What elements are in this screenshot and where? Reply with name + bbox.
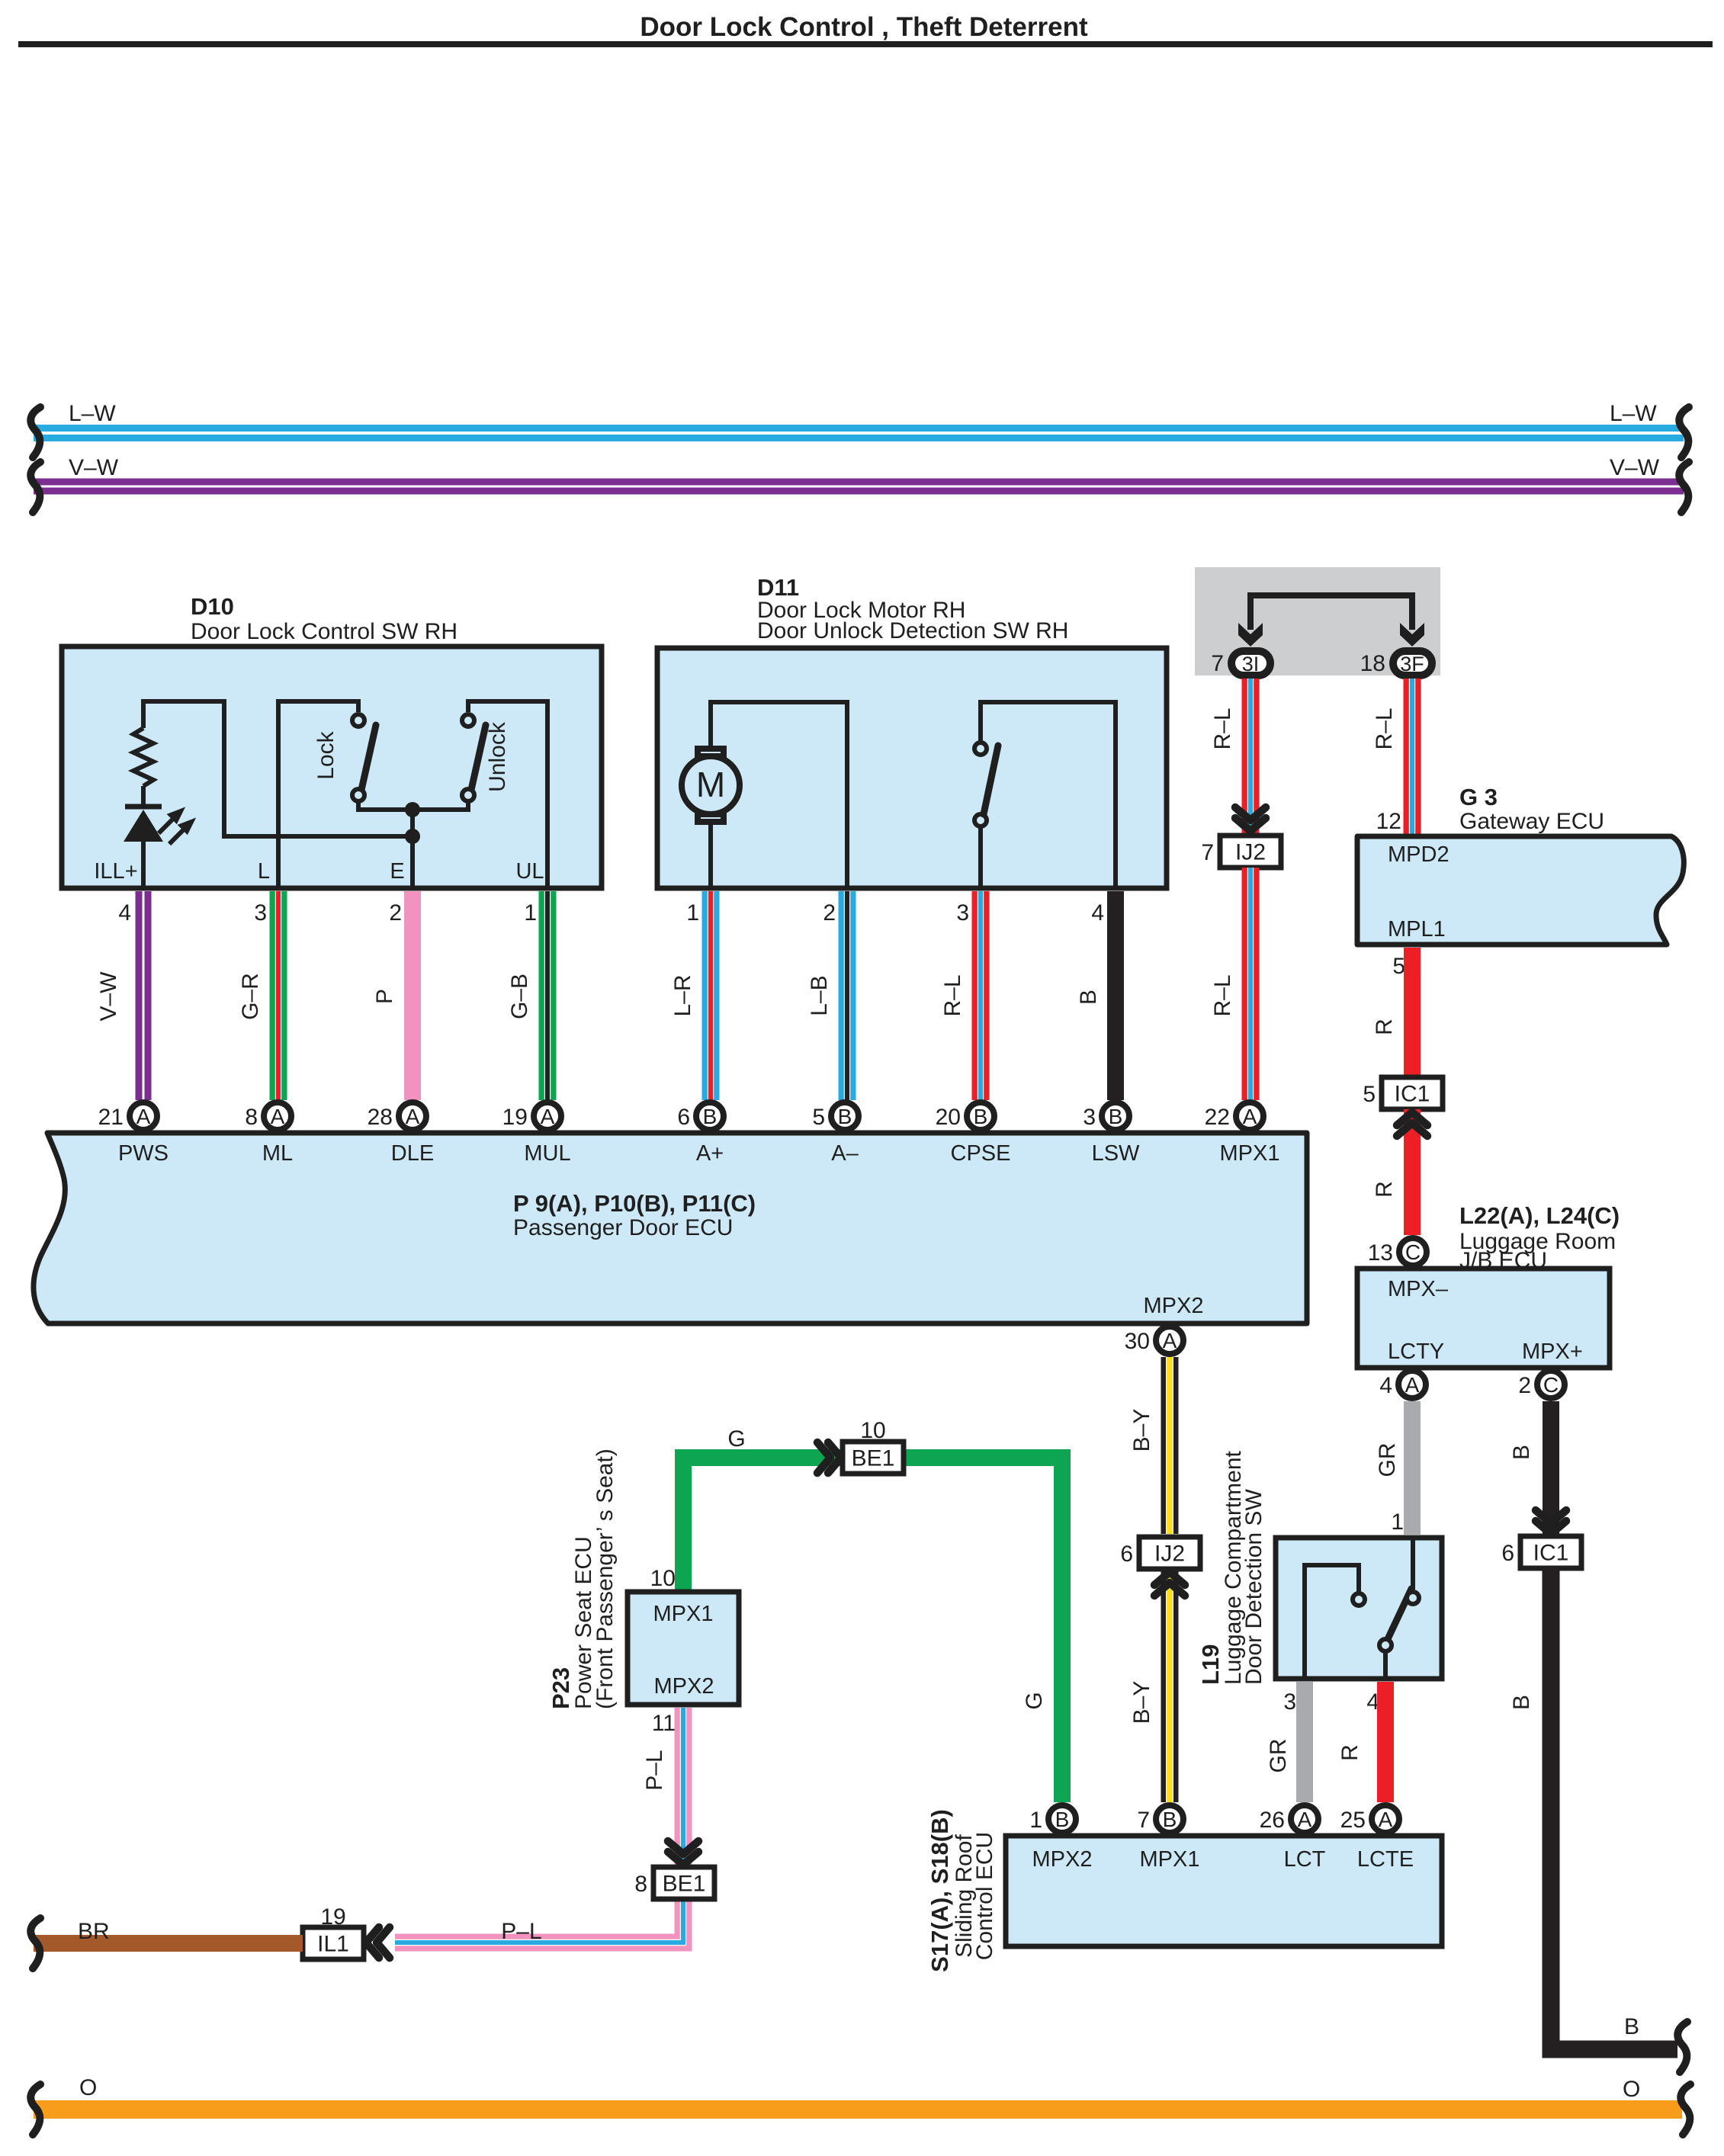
svg-text:21: 21 <box>98 1105 124 1130</box>
svg-text:UL: UL <box>515 859 544 884</box>
svg-text:MPD2: MPD2 <box>1388 842 1450 867</box>
svg-text:E: E <box>390 859 404 884</box>
arrow into 3I <box>1238 623 1263 646</box>
svg-text:25: 25 <box>1340 1808 1366 1833</box>
arrow into BE1 lower <box>668 1841 698 1865</box>
svg-text:3: 3 <box>956 900 969 926</box>
wire E pin <box>410 810 415 888</box>
svg-text:1: 1 <box>686 900 699 926</box>
svg-text:B: B <box>838 1105 852 1128</box>
svg-text:G 3: G 3 <box>1459 784 1498 810</box>
svg-text:19: 19 <box>502 1105 528 1130</box>
svg-text:B: B <box>1509 1445 1534 1460</box>
svg-text:8: 8 <box>245 1105 258 1130</box>
svg-text:IJ2: IJ2 <box>1154 1542 1185 1567</box>
svg-text:3: 3 <box>254 900 267 926</box>
svg-text:LSW: LSW <box>1092 1141 1140 1166</box>
svg-text:P–L: P–L <box>501 1919 541 1944</box>
svg-text:A: A <box>1379 1808 1393 1831</box>
svg-text:MUL: MUL <box>524 1141 570 1166</box>
svg-text:BE1: BE1 <box>852 1446 895 1471</box>
connector 26 A S17 <box>1291 1805 1318 1833</box>
svg-text:G–R: G–R <box>238 973 263 1020</box>
svg-text:B: B <box>1076 990 1101 1005</box>
svg-text:A+: A+ <box>696 1141 724 1166</box>
lock switch top contact <box>352 714 364 727</box>
wire R L19 to LCTE <box>1377 1682 1394 1802</box>
wire G-R pin3 <box>270 891 287 1100</box>
svg-text:28: 28 <box>368 1105 393 1130</box>
svg-text:R–L: R–L <box>940 974 965 1016</box>
svg-text:4: 4 <box>1379 1373 1392 1398</box>
svg-text:B–Y: B–Y <box>1129 1681 1154 1724</box>
svg-text:MPX–: MPX– <box>1388 1277 1449 1301</box>
lock switch blade <box>361 725 376 790</box>
junction dot E upper <box>405 802 420 817</box>
svg-text:A: A <box>136 1105 151 1128</box>
wire L19 pin1 lead <box>1411 1540 1415 1590</box>
svg-text:BR: BR <box>78 1919 110 1944</box>
svg-text:A: A <box>1163 1329 1177 1352</box>
svg-text:MPX1: MPX1 <box>1220 1141 1280 1166</box>
connector 25 A S17 <box>1372 1805 1399 1833</box>
connector 7 B S17 <box>1156 1805 1183 1833</box>
svg-text:7: 7 <box>1211 651 1224 676</box>
svg-text:MPX+: MPX+ <box>1522 1339 1583 1364</box>
svg-text:2: 2 <box>823 900 836 926</box>
junction IL1 <box>303 1927 364 1959</box>
svg-text:B: B <box>1163 1808 1177 1831</box>
svg-text:22: 22 <box>1205 1105 1230 1130</box>
L19 bottom contact <box>1379 1639 1392 1651</box>
cut symbol O right <box>1681 2084 1690 2135</box>
junction BE1 lower <box>653 1867 714 1899</box>
wire B pin4 <box>1107 891 1124 1100</box>
svg-text:L–B: L–B <box>807 975 832 1015</box>
svg-text:5: 5 <box>1392 954 1405 979</box>
connector 6 B ECU <box>696 1102 724 1130</box>
cut symbol O left <box>30 2084 40 2135</box>
junction dot E lower <box>405 829 420 844</box>
svg-text:26: 26 <box>1260 1808 1285 1833</box>
svg-text:3: 3 <box>1283 1689 1296 1715</box>
svg-text:1: 1 <box>1391 1510 1404 1535</box>
component L22 Luggage Room J/B ECU box <box>1357 1269 1610 1368</box>
svg-text:Door Detection SW: Door Detection SW <box>1241 1489 1267 1685</box>
svg-text:R–L: R–L <box>1210 707 1235 749</box>
unlock det sw bottom contact <box>974 814 987 826</box>
svg-text:18: 18 <box>1360 651 1385 676</box>
svg-text:Door Unlock Detection SW RH: Door Unlock Detection SW RH <box>757 618 1068 643</box>
svg-text:B: B <box>1509 1695 1534 1710</box>
svg-text:L–R: L–R <box>670 974 695 1016</box>
svg-text:B: B <box>703 1105 718 1128</box>
svg-text:5: 5 <box>1363 1082 1376 1107</box>
motor M D11 <box>682 749 740 822</box>
svg-text:A: A <box>1298 1808 1312 1831</box>
wire B luggage to IC1 <box>1543 1401 1559 1537</box>
component P23 Power Seat ECU box <box>628 1592 739 1705</box>
svg-text:Lock: Lock <box>313 730 339 779</box>
connector 5 B ECU <box>831 1102 859 1130</box>
svg-text:O: O <box>1623 2077 1640 2102</box>
svg-text:G–B: G–B <box>507 974 532 1019</box>
wire G-B pin1 <box>539 891 557 1100</box>
svg-text:ML: ML <box>262 1141 293 1166</box>
unlock det sw blade <box>984 746 998 814</box>
cut symbol L-W left <box>30 407 40 457</box>
svg-text:Passenger Door ECU: Passenger Door ECU <box>513 1215 733 1240</box>
svg-text:L–W: L–W <box>1610 401 1657 426</box>
svg-text:P–L: P–L <box>642 1750 667 1790</box>
svg-text:7: 7 <box>1201 840 1214 865</box>
svg-text:C: C <box>1543 1373 1559 1397</box>
LED D10 <box>124 807 163 848</box>
svg-text:8: 8 <box>634 1872 647 1897</box>
svg-text:B: B <box>974 1105 988 1128</box>
wire UL pin to unlock contact <box>468 701 547 888</box>
svg-text:GR: GR <box>1266 1739 1291 1773</box>
svg-text:2: 2 <box>1518 1373 1531 1398</box>
wire L pin to lock contact <box>278 701 358 888</box>
svg-text:D11: D11 <box>757 574 799 601</box>
svg-text:11: 11 <box>652 1711 676 1736</box>
svg-text:O: O <box>79 2075 97 2100</box>
svg-text:4: 4 <box>118 900 131 926</box>
wire V-W bus <box>34 479 1684 495</box>
junction BE1 upper <box>843 1442 904 1474</box>
svg-text:12: 12 <box>1376 809 1401 834</box>
svg-text:1: 1 <box>1029 1808 1042 1833</box>
wire R gateway to IC1 <box>1404 948 1421 1077</box>
svg-text:4: 4 <box>1091 900 1104 926</box>
connector 8 A ECU <box>264 1102 291 1130</box>
svg-text:V–W: V–W <box>96 971 121 1022</box>
svg-text:B: B <box>1055 1808 1070 1831</box>
arrow into IC1 lower <box>1536 1510 1566 1534</box>
svg-text:6: 6 <box>1501 1541 1514 1566</box>
wire R-L IJ2 to MPX1 <box>1242 868 1260 1100</box>
component L19 Luggage Compartment Door Detection SW box <box>1276 1538 1442 1679</box>
unlock switch top contact <box>462 714 474 727</box>
svg-text:B: B <box>1624 2014 1639 2039</box>
wire L-W bus <box>34 425 1684 441</box>
svg-text:C: C <box>1405 1240 1421 1264</box>
svg-text:19: 19 <box>320 1904 345 1930</box>
connector 20 B ECU <box>967 1102 994 1130</box>
svg-text:30: 30 <box>1125 1329 1150 1354</box>
wire resistor to E-node <box>143 701 408 836</box>
svg-text:IJ2: IJ2 <box>1235 840 1266 865</box>
svg-text:5: 5 <box>812 1105 825 1130</box>
wire P pin2 <box>404 891 421 1100</box>
svg-text:GR: GR <box>1375 1443 1400 1477</box>
wire GR L19 to LCT <box>1296 1682 1313 1802</box>
svg-text:B: B <box>1109 1105 1123 1128</box>
svg-text:3F: 3F <box>1400 653 1424 675</box>
svg-text:LCT: LCT <box>1284 1847 1326 1872</box>
connector 2 C luggage <box>1537 1371 1565 1398</box>
wire L-B pin2 <box>839 891 856 1100</box>
L19 top contact <box>1407 1592 1419 1604</box>
svg-text:G: G <box>727 1426 745 1452</box>
svg-text:7: 7 <box>1137 1808 1150 1833</box>
resistor D10 illumination <box>133 728 153 786</box>
title rule <box>18 41 1713 47</box>
wire sw top to pin4 <box>981 702 1116 888</box>
arrow out of IC1 upper <box>1397 1112 1427 1136</box>
wire L-R pin1 <box>702 891 720 1100</box>
LED emission arrows <box>159 811 191 844</box>
svg-text:6: 6 <box>1120 1542 1133 1567</box>
component S17 Sliding Roof Control ECU box <box>1006 1836 1442 1946</box>
connector 13 C <box>1399 1238 1427 1266</box>
wire L19 pin3 lead <box>1305 1565 1359 1676</box>
svg-text:IC1: IC1 <box>1533 1541 1569 1566</box>
svg-text:D10: D10 <box>191 593 234 620</box>
arrow into 3F <box>1400 623 1424 646</box>
svg-text:L22(A), L24(C): L22(A), L24(C) <box>1459 1202 1620 1229</box>
svg-text:A–: A– <box>831 1141 859 1166</box>
component D10 Door Lock Control SW RH box <box>62 646 602 888</box>
wire P-L P23 to IL1 <box>395 1708 683 1943</box>
svg-text:A: A <box>406 1105 420 1128</box>
svg-text:Door Lock Control SW RH: Door Lock Control SW RH <box>191 619 457 644</box>
unlock switch bottom contact <box>462 789 474 801</box>
connector 30 A ECU <box>1156 1327 1183 1354</box>
svg-text:MPL1: MPL1 <box>1388 917 1446 942</box>
svg-text:LCTE: LCTE <box>1357 1847 1414 1872</box>
wire unlock common <box>413 801 468 810</box>
svg-text:3I: 3I <box>1242 653 1260 675</box>
svg-text:R: R <box>1337 1744 1363 1761</box>
connector 3 B ECU <box>1102 1102 1129 1130</box>
connector 4 A luggage <box>1398 1371 1426 1398</box>
svg-text:B–Y: B–Y <box>1129 1409 1154 1452</box>
svg-text:BE1: BE1 <box>663 1872 706 1897</box>
wire motor bottom <box>708 825 713 888</box>
svg-text:A: A <box>1243 1105 1257 1128</box>
svg-text:V–W: V–W <box>69 455 119 480</box>
component G3 Gateway ECU box <box>1357 836 1684 945</box>
wire motor top to pin2 <box>711 702 847 888</box>
svg-text:R–L: R–L <box>1372 707 1397 749</box>
unlock switch blade <box>471 725 486 790</box>
wire R-L from 3I <box>1242 679 1260 834</box>
svg-text:G: G <box>1022 1692 1047 1709</box>
svg-text:R: R <box>1372 1181 1397 1198</box>
cut symbol B end <box>1677 2022 1687 2072</box>
svg-text:MPX2: MPX2 <box>1144 1294 1204 1318</box>
svg-text:P 9(A), P10(B), P11(C): P 9(A), P10(B), P11(C) <box>513 1190 756 1217</box>
svg-text:V–W: V–W <box>1610 455 1660 480</box>
svg-text:10: 10 <box>650 1566 676 1591</box>
connector 3I <box>1231 651 1270 675</box>
wire R-L pin3 <box>972 891 990 1100</box>
junction IC1 upper <box>1382 1077 1443 1109</box>
svg-text:LCTY: LCTY <box>1388 1339 1444 1364</box>
wire R-L from 3F <box>1404 679 1421 834</box>
svg-text:S17(A), S18(B): S17(A), S18(B) <box>926 1809 953 1972</box>
svg-text:A: A <box>1405 1373 1420 1397</box>
connector 28 A ECU <box>399 1102 426 1130</box>
svg-text:P: P <box>372 989 397 1004</box>
svg-text:1: 1 <box>524 900 537 926</box>
svg-text:Unlock: Unlock <box>485 721 510 792</box>
wire R IC1 to luggage <box>1404 1109 1421 1235</box>
junction IC1 lower <box>1520 1536 1581 1568</box>
svg-text:P23: P23 <box>547 1667 574 1709</box>
lock switch bottom contact <box>352 789 364 801</box>
svg-text:MPX2: MPX2 <box>1032 1847 1093 1872</box>
svg-text:3: 3 <box>1083 1105 1096 1130</box>
svg-text:(Front Passenger’ s Seat): (Front Passenger’ s Seat) <box>592 1449 618 1709</box>
wire O bus <box>34 2100 1682 2119</box>
wire B IC1 to ground bus <box>1551 1568 1677 2049</box>
connector 21 A ECU <box>130 1102 157 1130</box>
svg-text:10: 10 <box>860 1418 885 1443</box>
wire L19 pin4 lead <box>1383 1652 1388 1676</box>
connector 19 A ECU <box>534 1102 561 1130</box>
shield connector box <box>1195 567 1440 675</box>
connector 22 A ECU <box>1236 1102 1263 1130</box>
svg-text:MPX2: MPX2 <box>654 1674 714 1699</box>
wire G P23 to S17 <box>683 1458 1062 1802</box>
arrow into IJ2 <box>1235 807 1266 831</box>
svg-text:L19: L19 <box>1197 1644 1224 1685</box>
cut symbol L-W right <box>1679 407 1689 457</box>
wire LED to resistor <box>141 786 146 804</box>
svg-text:CPSE: CPSE <box>951 1141 1011 1166</box>
svg-text:Control ECU: Control ECU <box>972 1832 997 1960</box>
svg-text:DLE: DLE <box>391 1141 434 1166</box>
cut symbol V-W right <box>1679 462 1689 512</box>
svg-text:20: 20 <box>936 1105 961 1130</box>
L19 fixed contact <box>1353 1593 1365 1606</box>
svg-text:2: 2 <box>389 900 402 926</box>
wire 3I-3F jumper <box>1250 595 1412 630</box>
svg-text:L–W: L–W <box>69 401 116 426</box>
svg-text:A: A <box>271 1105 285 1128</box>
wire B-Y IJ2 to MPX1 S17 <box>1161 1570 1179 1802</box>
connector 3F <box>1393 651 1432 675</box>
svg-text:R–L: R–L <box>1210 974 1235 1016</box>
svg-text:J/B ECU: J/B ECU <box>1459 1248 1547 1273</box>
svg-text:IL1: IL1 <box>317 1932 349 1957</box>
component D11 Door Lock Motor box <box>657 648 1167 888</box>
svg-text:IC1: IC1 <box>1395 1082 1430 1107</box>
wire unlock det sw pin3 <box>978 826 983 888</box>
svg-text:Gateway ECU: Gateway ECU <box>1459 809 1604 834</box>
svg-text:PWS: PWS <box>118 1141 169 1166</box>
L19 blade <box>1387 1589 1411 1641</box>
component P9 Passenger Door ECU box <box>34 1133 1307 1323</box>
svg-text:MPX1: MPX1 <box>653 1602 714 1626</box>
junction IJ2 <box>1220 836 1281 868</box>
svg-text:13: 13 <box>1368 1240 1393 1266</box>
wire GR luggage to L19 <box>1404 1401 1421 1535</box>
arrow into IL1 <box>366 1927 390 1958</box>
svg-text:MPX1: MPX1 <box>1140 1847 1200 1872</box>
arrow out of IJ2 lower <box>1154 1572 1185 1596</box>
svg-text:ILL+: ILL+ <box>94 859 137 884</box>
svg-text:M: M <box>696 765 725 804</box>
svg-text:Door Lock Control , Theft Dete: Door Lock Control , Theft Deterrent <box>640 12 1088 42</box>
cut symbol V-W left <box>30 462 40 512</box>
svg-text:A: A <box>541 1105 555 1128</box>
wire lock common <box>358 801 413 810</box>
wire ILL+ lead <box>141 837 146 888</box>
unlock det sw top contact <box>974 743 987 755</box>
wire B-Y pin30 to IJ2 <box>1161 1357 1179 1534</box>
connector 1 B S17 <box>1048 1805 1076 1833</box>
arrow into BE1 upper <box>817 1442 841 1473</box>
wire BR <box>34 1935 303 1952</box>
svg-text:6: 6 <box>677 1105 690 1130</box>
junction IJ2 lower <box>1139 1537 1200 1569</box>
svg-text:L: L <box>258 859 270 884</box>
cut symbol BR <box>30 1918 40 1968</box>
svg-text:R: R <box>1372 1019 1397 1035</box>
wire V-W pin4 <box>136 891 152 1100</box>
